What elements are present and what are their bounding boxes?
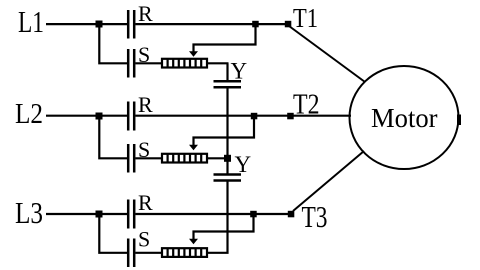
contactor Y2 xyxy=(214,175,242,181)
wire star bus top segment xyxy=(226,63,228,81)
arrowhead 1 xyxy=(189,51,198,57)
wire resistor1 out to bus xyxy=(207,62,229,64)
node L1 arrow feed xyxy=(252,21,259,28)
wire L1 main right xyxy=(136,23,289,25)
resistor R-start-2 xyxy=(162,154,207,163)
contactor R3 xyxy=(128,200,134,229)
svg-text:S: S xyxy=(138,42,150,67)
arrowhead 3 xyxy=(189,239,198,245)
contactor S3 xyxy=(128,239,134,268)
svg-text:Y: Y xyxy=(231,59,248,84)
motor circle xyxy=(350,66,459,169)
node L3 branch xyxy=(96,211,103,218)
wire S1 to resistor xyxy=(136,62,163,64)
contactor R2 xyxy=(128,102,134,131)
wire L1 main left xyxy=(46,23,127,25)
wire S3 to resistor xyxy=(136,252,163,254)
svg-text:L1: L1 xyxy=(18,4,44,39)
svg-text:R: R xyxy=(138,190,153,215)
svg-text:L2: L2 xyxy=(15,99,43,130)
resistor R-start-3 xyxy=(162,248,207,257)
resistor R-start-1 xyxy=(162,59,207,68)
contactor S2 xyxy=(128,144,134,173)
wire branch L3 down xyxy=(99,214,127,253)
svg-text:S: S xyxy=(138,227,150,252)
wire T3 diagonal to motor xyxy=(293,151,364,211)
wire L3 main right xyxy=(136,213,292,215)
svg-text:T3: T3 xyxy=(302,199,328,234)
wire star bus bottom segment xyxy=(207,181,228,253)
wire star bus mid segment xyxy=(226,87,228,174)
svg-text:T2: T2 xyxy=(293,90,320,121)
motor terminal stub xyxy=(457,115,461,126)
contactor R1 xyxy=(128,10,134,39)
node L3 arrow feed xyxy=(250,211,257,218)
svg-text:L3: L3 xyxy=(15,195,43,230)
node T1 xyxy=(285,21,292,28)
wire S2 to resistor xyxy=(136,157,163,159)
svg-text:T1: T1 xyxy=(293,3,318,33)
wire L2 main left xyxy=(46,115,127,117)
svg-text:R: R xyxy=(138,92,153,117)
svg-text:Motor: Motor xyxy=(371,103,438,133)
svg-text:Y: Y xyxy=(235,152,252,177)
node T2 xyxy=(287,113,294,120)
contactor S1 xyxy=(128,49,134,78)
node star bus R2 junction xyxy=(224,155,231,162)
svg-text:S: S xyxy=(138,137,150,162)
wire arrow feed 1 xyxy=(194,24,256,54)
wire L2 main right to motor xyxy=(136,115,352,117)
svg-text:R: R xyxy=(138,1,153,26)
node T3 xyxy=(288,211,295,218)
wire branch L1 down xyxy=(99,24,127,63)
wire arrow feed 2 xyxy=(194,116,255,148)
node L1 branch xyxy=(96,21,103,28)
node L2 arrow feed xyxy=(251,113,257,120)
wire T1 diagonal to motor xyxy=(289,26,365,82)
wire resistor2 out to bus xyxy=(207,157,229,159)
wire branch L2 down xyxy=(99,116,127,159)
wire L3 main left xyxy=(46,213,127,215)
arrowhead 2 xyxy=(189,145,198,151)
contactor Y1 xyxy=(214,81,242,87)
node L2 branch xyxy=(96,113,103,120)
wire arrow feed 3 xyxy=(194,214,254,242)
